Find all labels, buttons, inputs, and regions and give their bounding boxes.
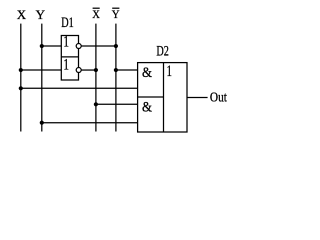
svg-text:&: & (142, 100, 152, 116)
node X-bar rail (95, 24, 97, 132)
op block D2 vertical divider (163, 63, 165, 132)
svg-text:Y: Y (112, 9, 120, 21)
wire X rail to D2 input 2 (21, 87, 138, 89)
wire D1 bottom output to X-bar rail (81, 69, 96, 71)
svg-text:X: X (92, 9, 100, 21)
junction dot Y / D2 input (40, 121, 44, 125)
wire Y rail to D2 input 4 (42, 122, 138, 124)
svg-text:X: X (17, 7, 27, 22)
svg-text:Y: Y (36, 7, 46, 22)
op block D2 outline (138, 63, 187, 132)
wire D2 output to Out (187, 97, 208, 99)
op block D1 outline (61, 36, 78, 81)
junction dot D1 out / X-bar rail (94, 68, 98, 72)
svg-text:1: 1 (166, 63, 172, 80)
junction dot D1 out / Y-bar rail (114, 44, 118, 48)
node Y rail (41, 24, 43, 132)
wire Y to D1 top input (42, 45, 62, 47)
node Y-bar rail (115, 24, 117, 132)
inverter bubble D1 top (76, 44, 81, 49)
label X-bar (92, 8, 100, 21)
op block D2 horizontal divider (138, 96, 164, 98)
wire X-bar rail to D2 input 3 (96, 103, 138, 105)
wire D1 top output to Y-bar rail (81, 45, 116, 47)
junction dot X / D2 input (19, 86, 23, 90)
op block D1 divider (61, 56, 78, 58)
junction dot Y-bar / D2 input (114, 68, 118, 72)
svg-text:D2: D2 (156, 44, 169, 60)
junction dot X-bar / D2 input (94, 102, 98, 106)
node X rail (20, 24, 22, 132)
junction dot X / D1 input (19, 68, 23, 72)
svg-text:1: 1 (63, 57, 69, 74)
svg-text:D1: D1 (61, 15, 74, 31)
wire Y-bar rail to D2 input 1 (116, 69, 138, 71)
svg-text:Out: Out (210, 90, 227, 105)
label Y-bar (112, 8, 120, 21)
svg-text:1: 1 (63, 34, 69, 51)
wire X to D1 bottom input (21, 69, 62, 71)
svg-text:&: & (142, 65, 152, 81)
inverter bubble D1 bottom (76, 68, 81, 73)
junction dot Y / D1 input (40, 44, 44, 48)
